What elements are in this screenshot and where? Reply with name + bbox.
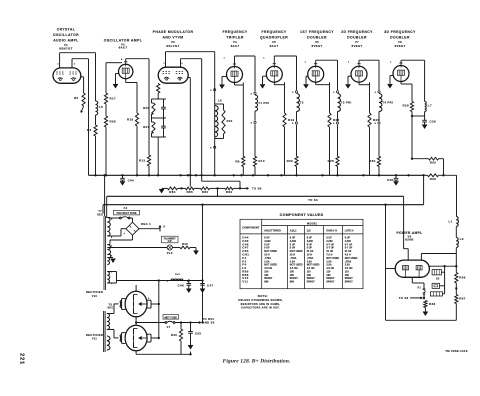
svg-text:AUDIO AMPL: AUDIO AMPL [53,39,79,43]
svg-text:R40: R40 [171,333,177,337]
svg-text:QUADRUPLER: QUADRUPLER [260,35,288,39]
svg-text:NOTE:: NOTE: [258,294,269,298]
svg-text:1ST FREQUENCY: 1ST FREQUENCY [300,30,334,34]
svg-text:C39: C39 [430,120,436,124]
svg-text:D,E: D,E [307,229,311,232]
svg-text:6: 6 [111,237,113,239]
svg-text:R65: R65 [187,190,193,194]
svg-text:2: 2 [292,92,294,94]
svg-text:V11: V11 [242,280,248,284]
svg-text:C53: C53 [195,332,201,336]
svg-text:CRYSTAL: CRYSTAL [57,28,76,32]
svg-text:UNLETTERED: UNLETTERED [264,229,281,232]
svg-text:V10: V10 [92,295,98,298]
svg-text:5: 5 [210,147,212,149]
svg-text:1: 1 [167,281,169,283]
svg-text:1: 1 [263,58,265,60]
svg-text:RECTIFIER: RECTIFIER [86,290,103,294]
svg-text:R58: R58 [110,120,116,124]
svg-text:K: K [163,225,165,229]
svg-text:6AC7: 6AC7 [119,46,128,50]
svg-text:F4: F4 [124,206,128,210]
svg-text:2: 2 [251,93,253,95]
svg-text:R62: R62 [202,190,208,194]
svg-text:ON: ON [168,241,172,243]
svg-text:MODEL: MODEL [307,222,318,225]
svg-text:TO S3: TO S3 [399,296,409,300]
svg-text:R64: R64 [169,190,175,194]
svg-text:R32: R32 [430,161,436,165]
svg-text:EARLY H: EARLY H [326,229,337,232]
svg-text:2: 2 [210,90,212,92]
svg-text:L5: L5 [99,105,103,109]
svg-text:SEC: SEC [97,214,103,217]
svg-text:R12: R12 [139,159,145,163]
svg-text:866: 866 [290,281,295,284]
svg-text:R8: R8 [235,159,239,163]
svg-text:3D FREQUENCY: 3D FREQUENCY [384,30,416,34]
svg-text:6AC7: 6AC7 [231,44,240,48]
svg-text:R19: R19 [288,118,294,122]
svg-text:FREQUENCY: FREQUENCY [261,30,286,34]
svg-text:SEC: SEC [107,307,113,310]
svg-text:L7: L7 [428,104,432,108]
svg-text:8: 8 [111,283,113,285]
svg-text:OSCILLATOR: OSCILLATOR [53,33,79,37]
svg-text:TO S5: TO S5 [252,187,262,191]
svg-text:1: 1 [390,62,392,64]
svg-text:C46: C46 [178,284,184,288]
svg-text:R36: R36 [459,276,465,280]
svg-text:FILAMENT: FILAMENT [164,237,177,240]
svg-text:OSC RECT FUSE: OSC RECT FUSE [116,212,136,215]
svg-text:5: 5 [251,123,253,125]
svg-text:FREQUENCY: FREQUENCY [222,30,247,34]
svg-text:1: 1 [163,63,165,65]
svg-text:TO S3: TO S3 [308,198,318,202]
svg-text:R22: R22 [287,159,293,163]
svg-text:C47: C47 [207,284,213,288]
svg-text:CAPACITORS ARE IN UUF.: CAPACITORS ARE IN UUF. [241,307,280,310]
svg-text:5R4GY: 5R4GY [326,281,334,284]
svg-text:5R4GY: 5R4GY [345,281,353,284]
svg-text:R24: R24 [227,119,233,123]
svg-text:DOUBLER: DOUBLER [390,35,410,39]
svg-text:L1: L1 [448,220,452,224]
svg-text:DOUBLER: DOUBLER [347,35,367,39]
svg-text:8: 8 [121,59,123,61]
svg-text:AND S3: AND S3 [203,321,215,325]
svg-text:R23: R23 [333,118,339,122]
svg-text:TO R54: TO R54 [203,317,215,321]
svg-text:6V6GT: 6V6GT [311,44,322,48]
svg-text:1: 1 [57,63,59,65]
svg-text:V11: V11 [92,338,98,341]
svg-text:R38: R38 [429,302,435,306]
svg-text:L6: L6 [218,99,222,103]
svg-text:REC 1: REC 1 [141,222,151,226]
svg-text:LATE H: LATE H [345,229,354,232]
svg-text:2: 2 [181,63,183,65]
svg-text:C44: C44 [128,178,134,182]
svg-text:PHASE MODULATOR: PHASE MODULATOR [153,30,194,34]
svg-text:1: 1 [223,58,225,60]
svg-text:COMPONENT VALUES: COMPONENT VALUES [280,213,324,217]
svg-text:2: 2 [333,92,335,94]
svg-text:A,B,C: A,B,C [290,229,297,232]
svg-text:POWER AMPL: POWER AMPL [396,231,422,235]
svg-text:5: 5 [375,123,377,125]
svg-text:C45: C45 [387,178,393,182]
svg-text:R6: R6 [87,128,91,132]
svg-text:RECTIFIER: RECTIFIER [86,333,103,337]
svg-text:TRIPLER: TRIPLER [226,35,244,39]
svg-text:R33: R33 [430,177,436,181]
svg-text:221: 221 [19,353,25,365]
svg-text:R21: R21 [143,125,149,129]
svg-text:6AC7: 6AC7 [270,44,279,48]
svg-text:R20: R20 [143,106,149,110]
svg-text:1: 1 [348,62,350,64]
svg-text:PL2: PL2 [167,251,173,255]
svg-text:CH1: CH1 [175,274,181,276]
svg-text:L3: L3 [460,237,464,241]
svg-text:6SL7GT: 6SL7GT [166,44,179,48]
svg-text:R10: R10 [258,159,264,163]
svg-text:R25: R25 [328,159,334,163]
svg-text:R17: R17 [110,97,116,101]
svg-text:F1: F1 [417,286,421,290]
svg-text:TM 2669-1018: TM 2669-1018 [445,349,468,353]
svg-text:OSCILLATOR AMPL: OSCILLATOR AMPL [104,39,142,43]
svg-text:R18: R18 [127,118,133,122]
svg-text:866: 866 [264,281,269,284]
svg-text:RESISTORS ARE IN OHMS,: RESISTORS ARE IN OHMS, [241,303,281,306]
svg-text:R2: R2 [74,96,78,100]
svg-text:T3 PRI: T3 PRI [341,101,352,105]
svg-text:R57: R57 [459,297,465,301]
svg-text:AND VTVM: AND VTVM [162,35,183,39]
svg-text:1: 1 [305,62,307,64]
svg-text:2D FREQUENCY: 2D FREQUENCY [341,30,373,34]
svg-text:R42: R42 [182,242,188,246]
svg-text:F7: F7 [167,325,171,329]
svg-text:2: 2 [74,63,76,65]
svg-text:MET FUSE: MET FUSE [164,316,177,319]
svg-text:829B: 829B [405,238,413,242]
svg-text:5R4GY: 5R4GY [307,281,315,284]
svg-text:5: 5 [292,123,294,125]
svg-text:S2: S2 [436,277,440,280]
svg-text:6V6GT: 6V6GT [351,44,362,48]
svg-text:2: 2 [148,298,150,300]
svg-text:+: + [123,231,125,235]
svg-text:R63: R63 [226,190,232,194]
svg-text:COMPONENT: COMPONENT [242,226,260,229]
svg-text:T4 PRI: T4 PRI [382,101,393,105]
svg-text:6V6GT: 6V6GT [394,44,405,48]
svg-text:R30: R30 [369,159,375,163]
svg-text:DOUBLER: DOUBLER [307,35,327,39]
svg-text:UNLESS OTHERWISE SHOWN,: UNLESS OTHERWISE SHOWN, [238,299,283,302]
svg-text:Figure 128. B+ Distribution.: Figure 128. B+ Distribution. [223,358,291,364]
svg-text:R26: R26 [373,118,379,122]
svg-text:R29: R29 [403,104,409,108]
svg-text:2: 2 [375,92,377,94]
svg-text:T2: T2 [300,101,304,105]
svg-text:5: 5 [333,123,335,125]
svg-text:6SN7GT: 6SN7GT [59,46,72,50]
svg-text:T1 PRI: T1 PRI [258,101,269,105]
